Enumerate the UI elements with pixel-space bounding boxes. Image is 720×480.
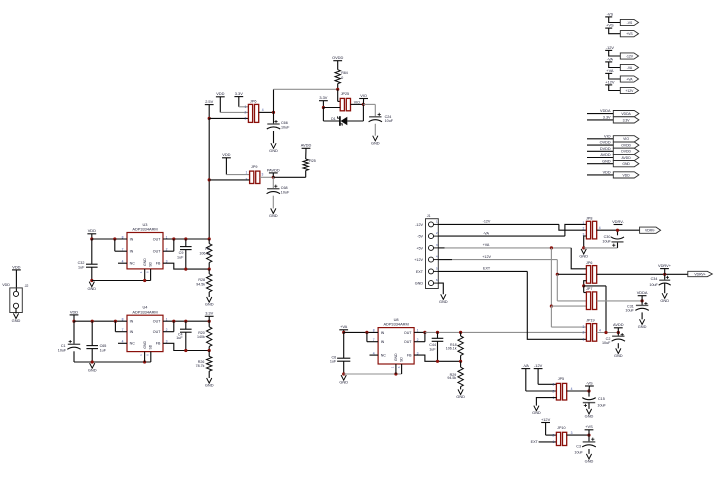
wire -VA (609, 62, 621, 68)
wire tie to JP7 pin1 (583, 286, 585, 293)
wire -VA to JP8 pin1 (565, 224, 587, 236)
net port -VS top (620, 19, 638, 25)
net port GND port (613, 161, 639, 167)
jumper JP8 (586, 221, 596, 239)
wire to JP6 pin3 (209, 117, 248, 119)
wire VDDA stem (641, 296, 643, 301)
wire R8 bottom (208, 263, 210, 270)
node U8 input (342, 331, 345, 334)
svg-text:10uF: 10uF (281, 190, 290, 194)
svg-text:-VS: -VS (607, 11, 614, 16)
node +12V at JP26 (556, 273, 559, 276)
svg-text:OVDD: OVDD (332, 55, 343, 60)
jumper JP10 (556, 432, 566, 445)
wire VDRV+ stem (664, 269, 666, 275)
net port VDD port (613, 172, 639, 178)
svg-text:VDD: VDD (623, 173, 631, 177)
wire U3 IN8 (92, 238, 127, 240)
wire +12V to JP10 pin2 (546, 434, 557, 436)
wire R18 bottom (460, 355, 462, 361)
net port VIO port (613, 136, 639, 142)
wire EXT to JP19 pin1 (527, 271, 586, 339)
wire EXT to JP10 pin1 (539, 441, 557, 443)
wire VIO stem (362, 99, 364, 105)
node U8 out C44 (436, 331, 439, 334)
capacitor C2 (612, 336, 625, 341)
wire +12V drop 2 (556, 274, 558, 301)
svg-text:5: 5 (436, 266, 438, 270)
op-amp regulator U4 ADP3334ARM (127, 315, 163, 351)
power flag 3.3V at JP25 (319, 95, 328, 101)
node -VS (587, 389, 590, 392)
wire C1 bottom (73, 351, 75, 362)
svg-text:VDD: VDD (70, 309, 78, 314)
svg-text:2: 2 (583, 331, 585, 335)
svg-text:3: 3 (262, 172, 264, 176)
node C65 top (91, 320, 94, 323)
wire PAVDD stem (272, 173, 274, 177)
wire to C66 (273, 112, 275, 124)
wire C9 bottom (185, 250, 187, 270)
ground C31 (638, 319, 647, 329)
svg-text:C1: C1 (61, 344, 66, 348)
node U3 GND pin (143, 279, 146, 282)
capacitor C65 (86, 346, 98, 349)
wire R28 top (208, 269, 210, 274)
wire J2 pin2 to ground (15, 308, 17, 313)
ground R26 (205, 378, 214, 388)
wire U3 OUT (163, 238, 209, 240)
node JP26-JP7 tie (582, 284, 585, 287)
capacitor C6 (337, 358, 350, 361)
svg-text:GND: GND (87, 286, 96, 291)
wire U4 pin7 drop (114, 321, 116, 332)
svg-text:+VA: +VA (340, 324, 348, 329)
wire U8 ground rail (344, 373, 402, 375)
wire OVDD stem (337, 61, 339, 70)
op-amp regulator U8 ADP3334ARM (378, 328, 414, 364)
net port +12V (620, 87, 638, 93)
svg-text:OUT: OUT (153, 320, 161, 324)
wire U8 SD pin stub (401, 364, 403, 374)
wire R25 bottom (305, 171, 307, 178)
wire to C9 (185, 239, 187, 247)
wire C24 to ground (374, 124, 376, 136)
ground C3 (585, 454, 594, 464)
wire to C4 (185, 321, 187, 329)
svg-text:-5V: -5V (417, 235, 423, 239)
svg-text:GND: GND (602, 159, 611, 163)
wire PAVDD to R25 (273, 176, 305, 178)
svg-text:10uF: 10uF (58, 349, 67, 353)
wire up from JP6 output (273, 89, 275, 112)
svg-text:R8: R8 (205, 247, 210, 251)
power flag -12V (605, 45, 614, 51)
svg-text:OUT: OUT (404, 331, 412, 335)
wire C44 bottom (437, 341, 439, 361)
svg-text:GND: GND (415, 282, 424, 286)
svg-text:1: 1 (436, 219, 438, 223)
node U4 out C4 (184, 320, 187, 323)
svg-text:C30: C30 (604, 235, 611, 239)
svg-text:JP6: JP6 (586, 261, 592, 265)
wire to C34 (664, 274, 666, 280)
svg-text:JP9: JP9 (251, 165, 257, 169)
node U8 out R18 (459, 331, 462, 334)
svg-text:3: 3 (583, 325, 585, 329)
wire AVDD stem (305, 148, 307, 159)
node PAVDD (272, 176, 275, 179)
node U4 pin7 branch (114, 320, 117, 323)
wire -12V (609, 50, 621, 56)
ground R28 (205, 297, 214, 307)
power flag AVDD (613, 322, 624, 328)
capacitor C44 (432, 338, 444, 341)
svg-text:JP19: JP19 (586, 318, 594, 322)
jumper JP26 (586, 266, 596, 284)
wire U4 OUT (163, 320, 209, 322)
wire U8 pin7 drop (366, 332, 368, 341)
wire -12V to JP8 pin2 (559, 224, 587, 230)
wire rail to JP9 pin2 (209, 179, 249, 181)
svg-text:+12V: +12V (414, 258, 423, 262)
ground C2 (614, 348, 623, 358)
node JP8 ground (582, 246, 585, 249)
resistor R25 (303, 159, 308, 171)
net port VDRV+ (688, 271, 713, 276)
capacitor C66 (267, 124, 280, 129)
power flag AVDD at R25 (301, 143, 312, 149)
svg-text:+12V: +12V (482, 255, 491, 259)
wire to D1 cathode (323, 120, 339, 122)
power flag 3.3V output (205, 311, 214, 317)
svg-text:-VA: -VA (627, 66, 633, 70)
svg-text:-12V: -12V (483, 220, 491, 224)
svg-text:AVDD: AVDD (613, 322, 624, 327)
svg-text:OUT: OUT (153, 237, 161, 241)
wire 2.5V stem (208, 105, 210, 119)
svg-text:VDD: VDD (603, 171, 611, 175)
node C9 bottom (184, 268, 187, 271)
net port VDDA port (613, 111, 639, 117)
capacitor C1 (67, 344, 80, 349)
J2 pin 1 socket (13, 291, 18, 296)
wire VIO down leg (362, 104, 364, 121)
node C4 bottom (184, 349, 187, 352)
svg-text:6: 6 (436, 278, 438, 282)
wire GND port (587, 163, 613, 165)
wire U3 IN7 (115, 250, 127, 252)
svg-text:C32: C32 (78, 261, 85, 265)
wire U4 IN8 (74, 320, 127, 322)
wire R26 top (208, 351, 210, 357)
node U3 ground rail left (90, 279, 93, 282)
svg-text:10uF: 10uF (597, 403, 606, 407)
svg-text:EXT: EXT (531, 440, 539, 444)
wire J1 GND (438, 283, 443, 294)
svg-text:4: 4 (262, 108, 264, 112)
svg-text:1: 1 (246, 171, 248, 175)
svg-text:C65: C65 (100, 344, 107, 348)
wire U8 FB (414, 355, 461, 361)
wire +VS top (609, 28, 621, 34)
svg-text:-12V: -12V (626, 54, 634, 58)
wire U4 out2 tie (173, 321, 175, 332)
wire U3 pin7 drop (114, 239, 116, 251)
svg-text:DVDD: DVDD (621, 150, 631, 154)
wire VDD stem U3 (91, 234, 93, 239)
power flag +VA at U8 (339, 324, 348, 330)
svg-text:3.3V: 3.3V (235, 91, 243, 96)
J1 pin 3 socket (429, 245, 434, 250)
wire U8 OUT to JP19 pin2 (549, 331, 586, 333)
svg-text:1uF: 1uF (429, 348, 436, 352)
wire JP10 pin3 out (567, 434, 589, 436)
svg-text:GND: GND (456, 394, 465, 399)
svg-text:FB: FB (156, 262, 161, 266)
wire to OVDD resistor node (274, 88, 338, 90)
capacitor C30 (611, 237, 624, 242)
svg-text:10uF: 10uF (602, 341, 611, 345)
svg-text:-VA: -VA (523, 363, 530, 368)
power flag PAVDD (267, 167, 280, 173)
svg-text:+12V: +12V (625, 89, 634, 93)
ground U3 (87, 282, 96, 292)
J1 pin 5 socket (429, 269, 434, 274)
ground C68 (269, 208, 278, 218)
node U3 out rail (208, 237, 211, 240)
svg-text:+VS: +VS (606, 23, 614, 28)
svg-text:VDD: VDD (2, 283, 10, 287)
node U3 out pin1 (172, 237, 175, 240)
svg-text:OUT: OUT (153, 250, 161, 254)
wire U8 OUT2 stub (414, 341, 425, 343)
wire VDD stem J2 (15, 270, 17, 292)
ground J2 (12, 313, 21, 323)
svg-text:SD: SD (400, 357, 404, 362)
svg-text:-12V: -12V (415, 223, 423, 227)
svg-text:4: 4 (599, 226, 601, 230)
svg-text:3.3V: 3.3V (603, 116, 611, 120)
svg-text:94.5k: 94.5k (447, 376, 456, 380)
wire +VA to JP7 pin3 (551, 305, 586, 307)
J2 pin 2 socket (13, 303, 18, 308)
ground C34 (660, 293, 669, 303)
wire R84 to node (337, 84, 339, 90)
J1 pin 2 socket (429, 234, 434, 239)
svg-text:C44: C44 (429, 343, 436, 347)
svg-text:OUT: OUT (404, 340, 412, 344)
node +VS (587, 434, 590, 437)
svg-text:GND: GND (532, 410, 541, 415)
svg-text:ADP3334ARM: ADP3334ARM (132, 309, 157, 314)
net port -12V (620, 53, 638, 59)
svg-text:+VS: +VS (626, 32, 633, 36)
J1 pin 6 socket (429, 281, 434, 286)
wire JP5 pin4 out (567, 390, 589, 392)
net port AVDD port (613, 154, 639, 160)
wire to C44 (437, 332, 439, 338)
svg-text:3: 3 (244, 116, 246, 120)
power flag OVDD (332, 55, 343, 61)
resistor R28 (207, 274, 212, 292)
resistor R18 (458, 336, 463, 355)
wire JP8 pin4 out (597, 229, 640, 231)
wire VDDA port (587, 113, 613, 115)
wire to JP25 bottom-left pin (323, 107, 340, 109)
wire 3.3V port (587, 119, 613, 121)
svg-text:OVDD: OVDD (600, 141, 611, 145)
wire to C1 (73, 321, 75, 344)
svg-text:GND: GND (439, 299, 448, 304)
svg-text:+5V: +5V (416, 246, 423, 250)
wire to JP6 pin1 (239, 106, 249, 108)
power flag -VA (605, 56, 613, 62)
svg-text:3: 3 (436, 243, 438, 247)
ground C15 (585, 409, 594, 419)
jumper JP9 (250, 171, 260, 183)
node R84 bottom (336, 88, 339, 91)
wire to C15 (588, 391, 590, 397)
wire JP6 pin4 out (259, 111, 274, 113)
svg-text:VDDA: VDDA (637, 290, 648, 295)
wire JP26 pin4 out (597, 273, 688, 275)
wire 3.3V stem at JP25 (322, 101, 324, 108)
svg-text:PAVDD: PAVDD (267, 167, 280, 172)
svg-text:GND: GND (585, 459, 594, 464)
wire to C6 (343, 332, 345, 358)
wire U4 ground rail (74, 361, 151, 363)
wire U8 OUT long run (425, 331, 549, 333)
svg-text:J2: J2 (25, 284, 29, 288)
wire R29 top (460, 361, 462, 367)
svg-text:2: 2 (553, 389, 555, 393)
wire down to JP25 (337, 89, 339, 101)
svg-text:-12V: -12V (606, 45, 615, 50)
svg-text:+VS: +VS (585, 424, 593, 429)
svg-text:OVDD: OVDD (621, 143, 631, 147)
wire R20 top (208, 321, 210, 327)
power flag -VS (605, 11, 613, 17)
power flag +VS (585, 424, 594, 430)
power flag 2.5V (205, 99, 214, 105)
wire +VA to JP26 pin1 (571, 248, 586, 269)
svg-text:AVDD: AVDD (622, 156, 632, 160)
wire JP25 top-left pin (338, 100, 341, 102)
wire to C65 (91, 321, 93, 345)
wire C4 bottom (185, 332, 187, 350)
net port VDRV- (640, 227, 661, 233)
ground U4 (88, 363, 97, 373)
svg-text:SD: SD (148, 344, 152, 349)
wire C30 top leg (617, 230, 619, 235)
wire ground to C30 (584, 247, 618, 249)
svg-text:3: 3 (553, 383, 555, 387)
op-amp regulator U3 ADP3334ARM (127, 233, 163, 269)
wire U8 IN7 (367, 341, 378, 343)
node U8 GND pin (394, 372, 397, 375)
svg-text:IN: IN (381, 340, 385, 344)
capacitor C34 (659, 280, 671, 285)
capacitor C32 (86, 264, 98, 267)
node U8 out pin1 (423, 331, 426, 334)
node AVDD tie (604, 331, 607, 334)
wire R29 bottom (460, 387, 462, 390)
wire +VA to JP19 pin3 (551, 326, 586, 328)
wire U3 SD pin stub (150, 269, 152, 281)
wire +12V drop (556, 260, 558, 275)
svg-text:1uF: 1uF (177, 256, 184, 260)
wire +12V (609, 85, 621, 91)
svg-text:JP6: JP6 (250, 100, 257, 104)
wire U8 IN8 (344, 331, 378, 333)
svg-text:GND: GND (371, 140, 380, 145)
wire to C31 (641, 301, 643, 306)
svg-text:AVDD: AVDD (301, 143, 312, 148)
wire C34 bottom (664, 283, 666, 293)
ground U8 (339, 375, 348, 385)
svg-text:C34: C34 (651, 277, 658, 281)
wire -VA to JP5 pin2 (526, 390, 557, 392)
capacitor C68 (267, 189, 280, 194)
svg-text:GND: GND (579, 254, 588, 259)
svg-text:-VS: -VS (627, 21, 633, 25)
wire U8 OUT stub (414, 331, 425, 333)
wire R20 bottom (208, 347, 210, 351)
wire JP5 pin1 to ground (536, 398, 556, 406)
wire OVDD port (587, 144, 613, 146)
svg-text:VIO: VIO (623, 137, 629, 141)
power flag VIO (359, 93, 368, 99)
connector J2 (10, 288, 22, 313)
node C44 bottom (436, 360, 439, 363)
svg-text:GND: GND (88, 368, 97, 373)
wire U4 IN7 (115, 331, 127, 333)
power flag +VA (605, 68, 614, 74)
svg-text:R25: R25 (309, 159, 316, 163)
svg-text:OUT: OUT (153, 330, 161, 334)
wire +12V from J1 (452, 259, 557, 261)
power flag VDD at U4 (70, 309, 79, 315)
wire VIO to C24 (363, 103, 375, 105)
wire JP7 pin1 stub (584, 292, 587, 294)
svg-text:GND: GND (205, 302, 214, 307)
wire C2 bottom (617, 343, 619, 348)
jumper JP7 (586, 292, 596, 310)
svg-text:JP7: JP7 (586, 287, 592, 291)
wire +VA stub (438, 247, 444, 249)
node JP6 output (272, 111, 275, 114)
svg-text:FB: FB (407, 354, 412, 358)
svg-text:JP10: JP10 (557, 426, 565, 430)
node VDRV- (616, 229, 619, 232)
svg-text:VDRV+: VDRV+ (694, 272, 705, 276)
svg-text:NC: NC (130, 262, 136, 266)
svg-text:VDRV-: VDRV- (645, 229, 655, 233)
svg-text:VDD: VDD (88, 228, 96, 233)
node 2.5V rail junction (208, 117, 211, 120)
wire to JP6 pin2 (220, 111, 248, 113)
wire U8 NC stub (370, 354, 379, 356)
svg-text:IN: IN (130, 250, 134, 254)
svg-text:4: 4 (436, 255, 438, 259)
svg-text:IN: IN (381, 331, 385, 335)
wire U3 GND pin stub (144, 269, 146, 281)
ground J1 (439, 294, 448, 304)
svg-text:3: 3 (571, 431, 573, 435)
wire U3 out2 tie (173, 239, 175, 251)
power flag VDRV+ (658, 263, 672, 269)
